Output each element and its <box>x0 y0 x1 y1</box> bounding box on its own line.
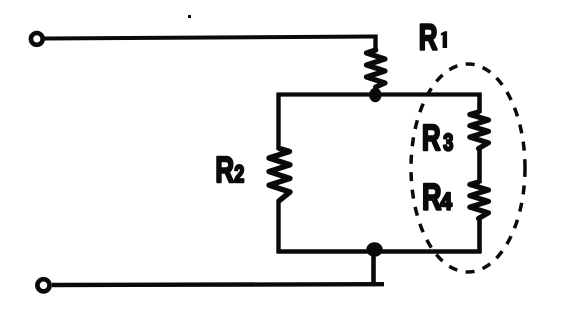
wire R1 bottom stub <box>373 86 377 95</box>
wire vertical stub into R1 <box>373 35 377 53</box>
svg-text:R: R <box>422 118 441 158</box>
node junction dot A (top) <box>369 88 381 102</box>
resistor R1 <box>366 50 385 87</box>
terminal T2 (bottom left) <box>37 279 49 291</box>
wire right branch lower <box>477 218 482 254</box>
wire bottom rail to T2 <box>52 282 384 287</box>
wire left branch upper <box>276 93 280 151</box>
speck <box>188 15 191 18</box>
wire right branch upper stub <box>477 93 482 114</box>
wire top from T1 to R1 corner <box>45 37 375 39</box>
wire vertical connector to bottom rail <box>371 250 376 286</box>
svg-text:R: R <box>215 150 234 190</box>
wire right branch middle <box>477 148 482 184</box>
wire left branch lower <box>276 200 280 254</box>
label R4 <box>422 175 441 217</box>
terminal T1 (top left) <box>31 33 43 45</box>
label R1 <box>419 17 438 57</box>
resistor R2 <box>269 149 290 201</box>
svg-text:2: 2 <box>234 161 244 187</box>
svg-text:R: R <box>419 17 438 57</box>
label R3 <box>422 118 441 158</box>
svg-text:4: 4 <box>440 187 452 215</box>
node junction dot B (bottom) <box>366 242 382 256</box>
svg-text:R: R <box>422 175 441 217</box>
label R2 <box>215 150 234 190</box>
svg-text:3: 3 <box>443 130 453 156</box>
wire top side of loop <box>277 92 481 96</box>
resistor R4 <box>470 182 489 219</box>
wire bottom side of loop <box>277 249 482 253</box>
dashed ellipse around R3 and R4 <box>411 64 525 272</box>
resistor R3 <box>470 112 489 149</box>
